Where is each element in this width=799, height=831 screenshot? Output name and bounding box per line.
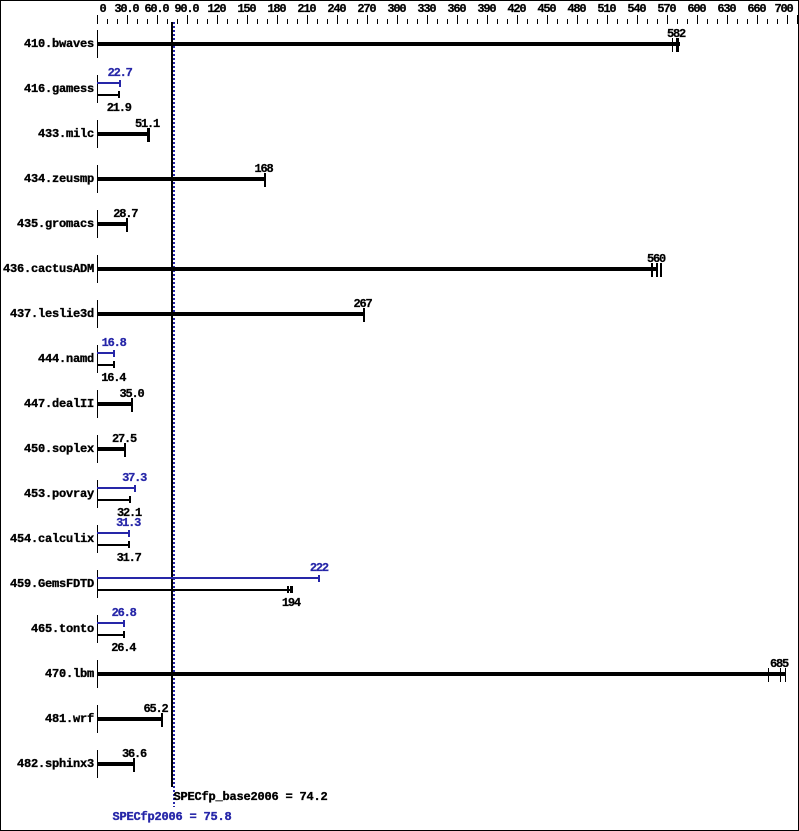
row 447.dealII [0, 398, 94, 411]
row 454.calculix [0, 533, 94, 546]
row 433.milc [0, 128, 94, 141]
axis ticks [97, 15, 98, 24]
row 453.povray [0, 488, 94, 501]
row 436.cactusADM [0, 263, 94, 276]
row 410.bwaves [0, 38, 94, 51]
peak mean dotted line 75.8 [173, 22, 175, 807]
row 437.leslie3d [0, 308, 94, 321]
row 416.gamess [0, 83, 94, 96]
summary peak [113, 811, 232, 824]
row 444.namd [0, 353, 94, 366]
row 435.gromacs [0, 218, 94, 231]
row 465.tonto [0, 623, 94, 636]
row 481.wrf [0, 713, 94, 726]
row 470.lbm [0, 668, 94, 681]
row 482.sphinx3 [0, 758, 94, 771]
row 459.GemsFDTD [0, 578, 94, 591]
row 434.zeusmp [0, 173, 94, 186]
summary base [174, 791, 328, 804]
row 450.soplex [0, 443, 94, 456]
axis labels [99, 3, 105, 16]
base mean line 74.2 [171, 22, 173, 787]
